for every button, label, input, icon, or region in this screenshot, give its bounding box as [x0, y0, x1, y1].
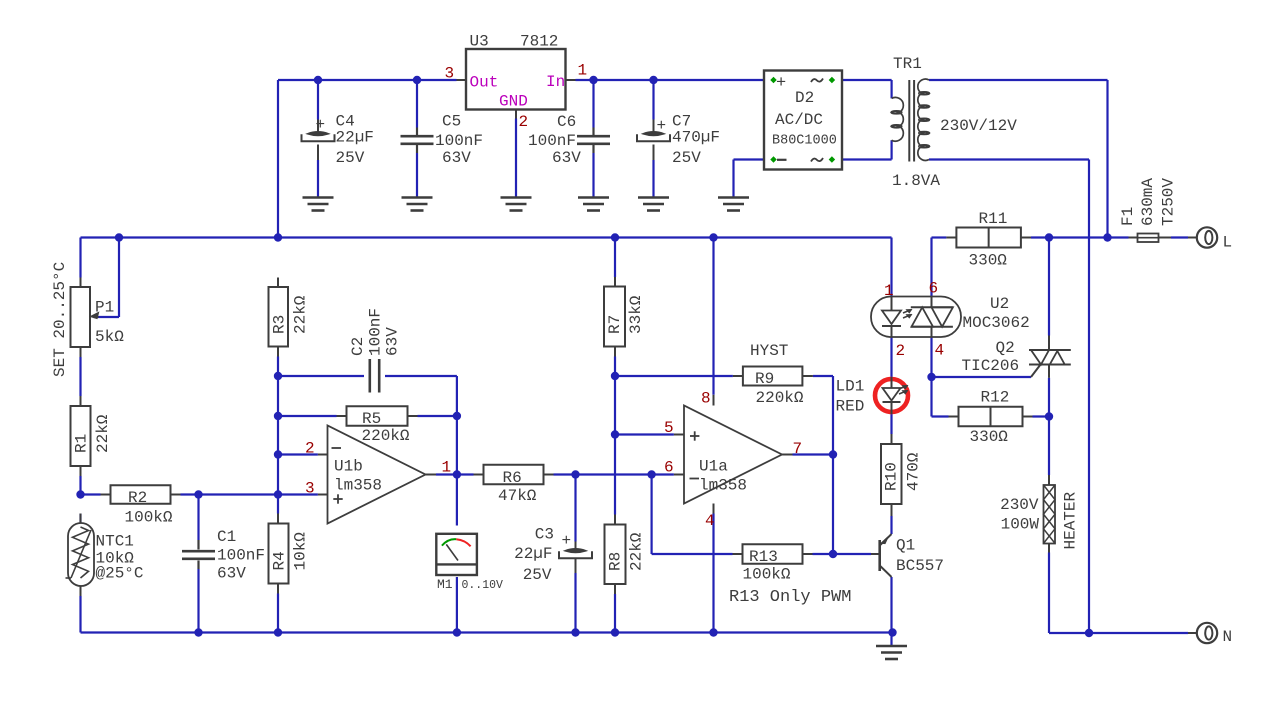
svg-text:+: +: [776, 74, 786, 93]
svg-text:330Ω: 330Ω: [970, 428, 1009, 446]
svg-text:0..10V: 0..10V: [462, 579, 504, 592]
svg-text:R12: R12: [981, 389, 1010, 407]
svg-text:L: L: [1223, 234, 1233, 252]
svg-text:220kΩ: 220kΩ: [756, 389, 804, 407]
svg-text:C1: C1: [217, 528, 236, 546]
svg-text:330Ω: 330Ω: [969, 252, 1008, 270]
svg-text:33kΩ: 33kΩ: [627, 295, 645, 334]
svg-text:25V: 25V: [336, 149, 365, 167]
svg-text:230V/12V: 230V/12V: [940, 117, 1017, 135]
svg-text:6: 6: [929, 280, 939, 298]
svg-text:RED: RED: [836, 398, 865, 416]
svg-text:@25°C: @25°C: [96, 565, 144, 583]
svg-text:10kΩ: 10kΩ: [291, 532, 309, 571]
svg-text:22kΩ: 22kΩ: [291, 295, 309, 334]
svg-text:LD1: LD1: [836, 378, 865, 396]
svg-text:Q2: Q2: [996, 339, 1015, 357]
svg-text:4: 4: [935, 342, 945, 360]
svg-text:lm358: lm358: [699, 477, 747, 495]
svg-text:100W: 100W: [1001, 516, 1040, 534]
svg-text:C5: C5: [442, 113, 461, 131]
svg-text:N: N: [1223, 628, 1233, 646]
svg-text:MOC3062: MOC3062: [963, 314, 1030, 332]
svg-text:NTC1: NTC1: [96, 533, 134, 551]
svg-text:63V: 63V: [552, 149, 581, 167]
svg-text:R13: R13: [749, 548, 778, 566]
svg-text:3: 3: [305, 480, 315, 498]
svg-text:R8: R8: [606, 552, 624, 571]
svg-text:100nF: 100nF: [366, 308, 384, 356]
svg-text:R7: R7: [606, 315, 624, 334]
svg-text:2: 2: [519, 113, 529, 131]
svg-text:M1: M1: [437, 577, 453, 592]
svg-text:+: +: [562, 532, 572, 550]
svg-text:220kΩ: 220kΩ: [362, 427, 410, 445]
svg-text:R13 Only PWM: R13 Only PWM: [729, 588, 851, 607]
svg-text:P1: P1: [95, 299, 114, 317]
svg-text:63V: 63V: [383, 327, 401, 356]
svg-text:22kΩ: 22kΩ: [94, 414, 112, 453]
svg-text:U1b: U1b: [334, 458, 363, 476]
svg-text:4: 4: [705, 512, 715, 530]
svg-text:B80C1000: B80C1000: [772, 134, 837, 149]
svg-text:U2: U2: [990, 295, 1009, 313]
svg-text:BC557: BC557: [896, 557, 944, 575]
svg-text:C6: C6: [557, 113, 576, 131]
svg-text:22µF: 22µF: [336, 129, 374, 147]
svg-text:R11: R11: [979, 210, 1008, 228]
svg-text:3: 3: [445, 65, 455, 83]
svg-text:25V: 25V: [523, 566, 552, 584]
svg-text:SET 20..25°C: SET 20..25°C: [51, 262, 69, 377]
svg-text:HYST: HYST: [750, 342, 788, 360]
svg-text:22kΩ: 22kΩ: [627, 532, 645, 571]
svg-text:GND: GND: [499, 93, 528, 111]
svg-text:7812: 7812: [520, 33, 558, 51]
svg-text:47kΩ: 47kΩ: [498, 487, 537, 505]
svg-text:1: 1: [578, 62, 588, 80]
svg-text:R9: R9: [755, 370, 774, 388]
svg-text:6: 6: [664, 459, 674, 477]
svg-text:25V: 25V: [672, 149, 701, 167]
svg-text:1: 1: [442, 459, 452, 477]
svg-text:1: 1: [884, 282, 894, 300]
svg-text:1.8VA: 1.8VA: [892, 172, 940, 190]
svg-text:100kΩ: 100kΩ: [125, 509, 173, 527]
svg-text:7: 7: [793, 440, 803, 458]
svg-text:5kΩ: 5kΩ: [95, 328, 124, 346]
svg-text:R1: R1: [72, 434, 90, 453]
svg-text:100nF: 100nF: [217, 547, 265, 565]
svg-text:22µF: 22µF: [514, 545, 552, 563]
svg-text:R5: R5: [362, 410, 381, 428]
svg-text:230V: 230V: [1000, 496, 1039, 514]
svg-text:Out: Out: [470, 74, 499, 92]
svg-text:Q1: Q1: [896, 537, 915, 555]
svg-text:470µF: 470µF: [672, 129, 720, 147]
svg-text:2: 2: [305, 440, 315, 458]
svg-text:T250V: T250V: [1159, 178, 1177, 226]
svg-text:TR1: TR1: [893, 55, 922, 73]
svg-text:470Ω: 470Ω: [904, 452, 922, 491]
svg-text:+: +: [316, 116, 326, 134]
svg-text:R4: R4: [270, 551, 288, 570]
svg-text:C2: C2: [349, 337, 367, 356]
svg-text:8: 8: [701, 390, 711, 408]
svg-text:R2: R2: [128, 489, 147, 507]
svg-text:R10: R10: [882, 462, 900, 491]
svg-text:HEATER: HEATER: [1061, 491, 1079, 549]
svg-text:D2: D2: [795, 89, 814, 107]
svg-text:630mA: 630mA: [1139, 178, 1157, 226]
svg-text:100nF: 100nF: [528, 132, 576, 150]
svg-text:R3: R3: [270, 315, 288, 334]
svg-text:5: 5: [664, 419, 674, 437]
svg-text:100nF: 100nF: [435, 132, 483, 150]
svg-text:lm358: lm358: [334, 477, 382, 495]
svg-text:AC/DC: AC/DC: [775, 111, 823, 129]
svg-text:63V: 63V: [217, 565, 246, 583]
svg-text:TIC206: TIC206: [962, 357, 1020, 375]
svg-text:63V: 63V: [442, 149, 471, 167]
svg-text:U3: U3: [470, 33, 489, 51]
svg-text:+: +: [657, 117, 667, 135]
svg-text:F1: F1: [1119, 207, 1137, 226]
svg-text:U1a: U1a: [699, 458, 728, 476]
svg-text:R6: R6: [503, 469, 522, 487]
svg-text:In: In: [546, 73, 565, 91]
svg-text:C3: C3: [535, 526, 554, 544]
svg-text:2: 2: [896, 342, 906, 360]
svg-text:100kΩ: 100kΩ: [743, 566, 791, 584]
